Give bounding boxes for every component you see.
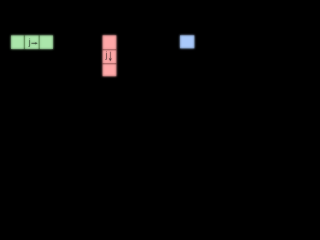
crisp overlay (11, 35, 194, 76)
soft underlay (11, 35, 194, 76)
